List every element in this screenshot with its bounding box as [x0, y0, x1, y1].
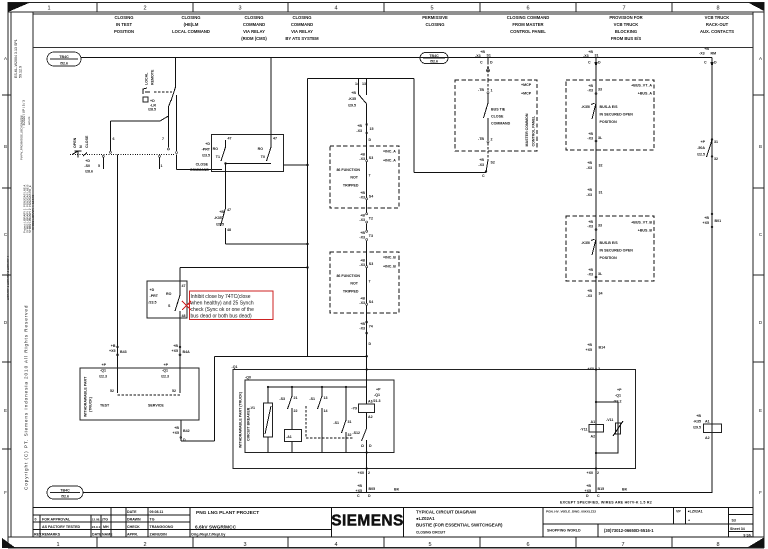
svg-text:S3: S3 — [369, 262, 373, 266]
svg-text:+BUS_B: +BUS_B — [638, 229, 653, 233]
svg-text:6: 6 — [113, 137, 115, 141]
svg-text:+B: +B — [479, 158, 484, 162]
svg-text:arcom: arcom — [27, 116, 31, 125]
svg-text:T1: T1 — [216, 155, 220, 159]
svg-text:BUS-A E/S: BUS-A E/S — [600, 105, 619, 109]
svg-text:+MCP: +MCP — [521, 83, 532, 87]
svg-text:+B: +B — [351, 91, 356, 95]
svg-text:CLOSING CIRCUIT: CLOSING CIRCUIT — [416, 530, 445, 534]
svg-text:AS FACTORY TESTED: AS FACTORY TESTED — [42, 525, 80, 529]
svg-text:(30)73012-06650D-5516-1: (30)73012-06650D-5516-1 — [604, 528, 654, 533]
svg-text:A: A — [4, 56, 7, 61]
svg-text:2: 2 — [368, 471, 370, 475]
svg-text:REMARKS: REMARKS — [42, 533, 61, 537]
svg-text:-TB: -TB — [478, 137, 484, 141]
svg-text:+B: +B — [360, 153, 365, 157]
svg-text:-X3: -X3 — [359, 327, 365, 331]
svg-text:S1: S1 — [487, 54, 491, 58]
svg-text:A1: A1 — [705, 420, 710, 424]
svg-text:-PRT: -PRT — [202, 148, 211, 152]
svg-text:PV-PV_PRO/INSIDE_IBC//GAS/SW: PV-PV_PRO/INSIDE_IBC//GAS/SW — [20, 115, 24, 160]
svg-text:COMMAND: COMMAND — [491, 122, 511, 126]
svg-text:-Q1: -Q1 — [374, 393, 380, 397]
svg-text:59.12.9: 59.12.9 — [19, 66, 23, 78]
svg-text:TB4C: TB4C — [429, 54, 439, 58]
svg-text:+BUS_VT_A: +BUS_VT_A — [631, 84, 652, 88]
svg-text:+B: +B — [588, 220, 593, 224]
svg-text:BY ATS SYSTEM: BY ATS SYSTEM — [285, 36, 319, 41]
svg-text:-K35/: -K35/ — [581, 105, 590, 109]
svg-text:-A1: -A1 — [286, 435, 292, 439]
svg-text:A: A — [759, 56, 762, 61]
svg-text:Ω: Ω — [361, 444, 364, 448]
svg-text:0: 0 — [35, 518, 37, 522]
svg-text:CLOSE: CLOSE — [85, 135, 89, 148]
svg-text:E: E — [4, 408, 7, 413]
svg-text:+B: +B — [360, 214, 365, 218]
svg-text:-50A: -50A — [697, 146, 705, 150]
svg-text:AUX. CONTACTS: AUX. CONTACTS — [700, 29, 734, 34]
svg-text:TRANGGONO: TRANGGONO — [150, 525, 174, 529]
svg-text:14: 14 — [355, 82, 359, 86]
svg-text:+P: +P — [102, 363, 107, 367]
svg-text:D: D — [183, 438, 186, 442]
svg-text:6.6kV SWGR/MCC: 6.6kV SWGR/MCC — [195, 525, 237, 531]
svg-text:C: C — [482, 174, 485, 178]
svg-text:FROM BUS E/S: FROM BUS E/S — [611, 36, 641, 41]
svg-text:S3: S3 — [732, 518, 736, 522]
svg-text:32: 32 — [599, 164, 603, 168]
svg-text:+B: +B — [587, 343, 592, 347]
svg-text:34: 34 — [599, 292, 603, 296]
svg-text:31: 31 — [348, 420, 352, 424]
svg-text:T2: T2 — [369, 217, 373, 221]
svg-text:2: 2 — [143, 6, 146, 12]
svg-text:S2: S2 — [491, 161, 495, 165]
svg-text:VCB TRUCK: VCB TRUCK — [614, 22, 639, 27]
svg-text:+X0: +X0 — [358, 471, 365, 475]
svg-text:22: 22 — [294, 409, 298, 413]
svg-text:when healthy) and 25 Synch: when healthy) and 25 Synch — [191, 300, 254, 306]
svg-text:-X3: -X3 — [586, 294, 592, 298]
svg-text:-K35T: -K35T — [214, 216, 225, 220]
svg-text:+B: +B — [696, 414, 701, 418]
svg-text:/52.6: /52.6 — [61, 495, 69, 499]
svg-text:D: D — [369, 342, 372, 346]
svg-text:=INC_B: =INC_B — [383, 256, 396, 260]
svg-text:/29.5: /29.5 — [348, 104, 356, 108]
svg-text:-Y9: -Y9 — [351, 407, 357, 411]
svg-text:7: 7 — [369, 280, 371, 284]
svg-text:21: 21 — [294, 396, 298, 400]
svg-text:-K35: -K35 — [693, 420, 701, 424]
svg-text:NOT: NOT — [350, 176, 358, 180]
svg-text:PNG LNG PLANT PROJECT: PNG LNG PLANT PROJECT — [196, 510, 259, 516]
svg-text:B05: B05 — [369, 487, 376, 491]
svg-text:+X0: +X0 — [587, 471, 594, 475]
svg-text:S3: S3 — [369, 156, 373, 160]
svg-text:+P: +P — [617, 388, 622, 392]
svg-text:7: 7 — [621, 542, 624, 548]
svg-text:B: B — [759, 144, 762, 149]
svg-text:D: D — [369, 444, 372, 448]
svg-text:C: C — [704, 61, 707, 65]
svg-text:-X3: -X3 — [699, 52, 705, 56]
svg-text:1: 1 — [491, 89, 493, 93]
svg-text:+B: +B — [360, 322, 365, 326]
svg-text:/23.5: /23.5 — [149, 301, 157, 305]
svg-text:-X3: -X3 — [359, 157, 365, 161]
svg-text:-K35: -K35 — [348, 97, 356, 101]
svg-text:/29.5: /29.5 — [693, 426, 701, 430]
svg-text:D: D — [586, 494, 589, 498]
svg-text:/22.5: /22.5 — [697, 153, 705, 157]
svg-text:+B: +B — [588, 84, 593, 88]
svg-text:48: 48 — [182, 314, 186, 318]
svg-text:LOCAL: LOCAL — [145, 72, 149, 85]
svg-text:VIA RELAY: VIA RELAY — [291, 29, 313, 34]
svg-text:TB4C: TB4C — [59, 55, 69, 59]
svg-text:+MCP: +MCP — [521, 92, 532, 96]
svg-text:-S0: -S0 — [84, 164, 90, 168]
svg-text:+B: +B — [588, 132, 593, 136]
svg-text:NAME: NAME — [102, 533, 113, 537]
svg-text:+B: +B — [174, 426, 179, 430]
svg-text:+D: +D — [85, 159, 90, 163]
svg-text:-TB: -TB — [478, 88, 484, 92]
svg-text:N: N — [79, 145, 83, 148]
svg-text:WITHDRAWABLE PART: WITHDRAWABLE PART — [84, 376, 88, 417]
svg-text:COMMAND: COMMAND — [291, 22, 313, 27]
svg-text:+X5: +X5 — [703, 221, 710, 225]
svg-text:+P: +P — [164, 363, 169, 367]
svg-text:-X3: -X3 — [587, 225, 593, 229]
svg-text:RO: RO — [258, 147, 264, 151]
svg-text:Orig./Repl.f./Repl.by: Orig./Repl.f./Repl.by — [191, 533, 225, 537]
svg-text:CLOSING: CLOSING — [181, 15, 200, 20]
svg-text:+X5: +X5 — [109, 349, 116, 353]
svg-text:+B: +B — [480, 50, 485, 54]
svg-text:5: 5 — [430, 6, 433, 12]
svg-text:-PRT: -PRT — [150, 294, 159, 298]
svg-text:+X5: +X5 — [356, 489, 363, 493]
svg-text:32: 32 — [714, 157, 718, 161]
svg-text:2: 2 — [143, 542, 146, 548]
svg-text:CHECK: CHECK — [127, 525, 140, 529]
svg-text:86 FUNCTION: 86 FUNCTION — [336, 168, 360, 172]
svg-text:-X3: -X3 — [583, 54, 589, 58]
svg-text:/52.6: /52.6 — [60, 62, 68, 66]
svg-text:PERMISSIVE: PERMISSIVE — [422, 15, 448, 20]
svg-text:-S3: -S3 — [279, 397, 285, 401]
svg-text:VP: VP — [676, 510, 681, 514]
svg-text:C: C — [480, 61, 483, 65]
svg-text:ES-KL-W2004 3.13 SP1: ES-KL-W2004 3.13 SP1 — [14, 39, 18, 78]
svg-text:CLOSING: CLOSING — [292, 15, 311, 20]
svg-text:B14: B14 — [599, 346, 606, 350]
svg-text:A2: A2 — [591, 435, 596, 439]
svg-text:31: 31 — [595, 54, 599, 58]
svg-text:8: 8 — [716, 6, 719, 12]
svg-text:BLOCKING: BLOCKING — [615, 29, 637, 34]
svg-text:4: 4 — [334, 542, 337, 548]
svg-text:BK: BK — [394, 488, 400, 492]
svg-text:RO: RO — [166, 292, 172, 296]
svg-text:T3: T3 — [369, 234, 373, 238]
svg-text:TYPICAL CIRCUIT DIAGRAM: TYPICAL CIRCUIT DIAGRAM — [416, 509, 476, 514]
svg-text:B42: B42 — [183, 429, 190, 433]
svg-text:CLOSING: CLOSING — [114, 15, 133, 20]
svg-text:WITHDRAWABLE PART (TRUCK): WITHDRAWABLE PART (TRUCK) — [239, 391, 243, 448]
svg-text:-X3: -X3 — [587, 137, 593, 141]
svg-text:7: 7 — [162, 137, 164, 141]
svg-text:3: 3 — [238, 6, 241, 12]
svg-text:NOT: NOT — [350, 282, 358, 286]
svg-text:D: D — [369, 138, 372, 142]
svg-text:DATE: DATE — [92, 533, 102, 537]
svg-text:+B: +B — [588, 50, 593, 54]
svg-text:+B: +B — [588, 268, 593, 272]
svg-text:+B: +B — [586, 484, 591, 488]
svg-text:MH: MH — [103, 525, 109, 529]
svg-text:31: 31 — [599, 191, 603, 195]
svg-text:+D: +D — [150, 99, 155, 103]
svg-text:-K35/: -K35/ — [581, 241, 590, 245]
svg-text:+B: +B — [173, 344, 178, 348]
svg-text:-Q1: -Q1 — [162, 369, 168, 373]
svg-text:+B: +B — [357, 124, 362, 128]
svg-text:CLOSING COMMAND: CLOSING COMMAND — [507, 15, 550, 20]
svg-text:F: F — [759, 490, 762, 495]
svg-text:POSITION: POSITION — [114, 29, 134, 34]
svg-text:(TRUCK): (TRUCK) — [89, 396, 93, 412]
svg-text:47: 47 — [227, 208, 231, 212]
svg-text:SIEMENS: SIEMENS — [331, 513, 404, 530]
svg-text:+B: +B — [111, 344, 116, 348]
svg-text:2: 2 — [597, 471, 599, 475]
svg-text:47: 47 — [273, 137, 277, 141]
svg-text:/22.3: /22.3 — [99, 375, 107, 379]
svg-text:CIRCUIT BREAKER: CIRCUIT BREAKER — [247, 407, 251, 441]
svg-text:LIBRARY 1 LIBRARY 2 LIBRARY: LIBRARY 1 LIBRARY 2 LIBRARY 4 — [6, 255, 10, 300]
svg-text:VIA RELAY: VIA RELAY — [243, 29, 265, 34]
svg-text:-S1: -S1 — [333, 421, 339, 425]
svg-text:-V1: -V1 — [249, 406, 255, 410]
svg-text:IN TEST: IN TEST — [116, 22, 132, 27]
svg-text:15: 15 — [370, 127, 374, 131]
svg-text:-V11: -V11 — [606, 418, 613, 422]
svg-text:+B: +B — [587, 289, 592, 293]
svg-text:+B: +B — [704, 216, 709, 220]
svg-text:-X3: -X3 — [475, 54, 481, 58]
svg-text:+B: +B — [360, 231, 365, 235]
svg-text:=INC_A: =INC_A — [383, 150, 396, 154]
svg-text:BUS TIE: BUS TIE — [491, 108, 506, 112]
svg-text:COMMAND: COMMAND — [243, 22, 265, 27]
svg-text:S4: S4 — [369, 300, 373, 304]
svg-text:+B: +B — [587, 188, 592, 192]
svg-text:/22.2: /22.2 — [614, 400, 622, 404]
svg-text:BK: BK — [622, 488, 628, 492]
svg-text:D: D — [490, 61, 493, 65]
svg-text:APPR.: APPR. — [127, 533, 138, 537]
svg-text:FROM MASTER: FROM MASTER — [512, 22, 543, 27]
svg-text:+X5: +X5 — [173, 431, 180, 435]
svg-text:31: 31 — [714, 140, 718, 144]
svg-text:-X3: -X3 — [356, 129, 362, 133]
svg-text:COMMAND: COMMAND — [190, 168, 210, 172]
svg-text:LOCAL COMMAND: LOCAL COMMAND — [172, 29, 210, 34]
svg-text:Copyright (C) PT. Siemens Ind: Copyright (C) PT. Siemens Indonesia 2010… — [24, 305, 29, 490]
svg-text:-X3: -X3 — [359, 195, 365, 199]
svg-text:D: D — [368, 494, 371, 498]
svg-text:+B: +B — [587, 161, 592, 165]
svg-text:+B: +B — [219, 210, 224, 214]
svg-text:TEST: TEST — [100, 404, 110, 408]
svg-text:-X3: -X3 — [587, 273, 593, 277]
svg-text:47: 47 — [182, 284, 186, 288]
svg-text:TRIPPED: TRIPPED — [343, 183, 359, 187]
svg-text:14: 14 — [324, 409, 328, 413]
svg-text:-X3: -X3 — [478, 163, 484, 167]
svg-text:E: E — [759, 408, 762, 413]
svg-text:CLOSE: CLOSE — [196, 163, 209, 167]
svg-text:IN SECURED OPEN: IN SECURED OPEN — [600, 113, 634, 117]
svg-text:TG: TG — [150, 518, 155, 522]
svg-text:FOR APPROVAL: FOR APPROVAL — [42, 518, 71, 522]
svg-text:CONTROL PANEL: CONTROL PANEL — [510, 29, 546, 34]
svg-text:+: + — [688, 518, 690, 522]
svg-text:33: 33 — [598, 224, 602, 228]
svg-text:-Y11: -Y11 — [580, 428, 587, 432]
svg-text:DATE: DATE — [127, 510, 137, 514]
svg-text:09.08.11: 09.08.11 — [150, 510, 164, 514]
svg-text:REMOTE: REMOTE — [151, 69, 155, 85]
svg-text:BUSTIE (FOR ESSENTIAL SWITCHGE: BUSTIE (FOR ESSENTIAL SWITCHGEAR) — [416, 523, 503, 528]
svg-text:1: 1 — [56, 542, 59, 548]
svg-text:8: 8 — [716, 542, 719, 548]
svg-text:13: 13 — [324, 396, 328, 400]
svg-text:86 FUNCTION: 86 FUNCTION — [336, 274, 360, 278]
svg-text:ZAINUDIN: ZAINUDIN — [150, 533, 168, 537]
svg-text:BUS-B E/S: BUS-B E/S — [600, 241, 619, 245]
svg-text:D: D — [598, 61, 601, 65]
svg-text:CLOSING: CLOSING — [244, 15, 263, 20]
svg-text:33: 33 — [598, 88, 602, 92]
svg-text:-S1: -S1 — [309, 397, 315, 401]
svg-text:●LZ02A1: ●LZ02A1 — [688, 510, 703, 514]
svg-text:A2: A2 — [705, 436, 710, 440]
svg-text:●LZ02A1: ●LZ02A1 — [416, 516, 435, 521]
svg-text:A1: A1 — [591, 420, 596, 424]
svg-text:+D: +D — [150, 288, 155, 292]
svg-text:SERVICE: SERVICE — [148, 404, 164, 408]
svg-text:+B: +B — [704, 47, 709, 51]
svg-text:5: 5 — [428, 542, 431, 548]
svg-text:-X3: -X3 — [586, 193, 592, 197]
svg-text:+B: +B — [360, 259, 365, 263]
svg-text:+P: +P — [376, 388, 381, 392]
svg-text:(RIOM (CMS): (RIOM (CMS) — [241, 36, 267, 41]
svg-text:SHOPPING WORLD: SHOPPING WORLD — [547, 529, 581, 533]
svg-text:+X5: +X5 — [585, 489, 592, 493]
svg-text:CLOSE: CLOSE — [491, 115, 504, 119]
svg-text:RM: RM — [711, 52, 717, 56]
svg-text:TG: TG — [103, 518, 108, 522]
svg-text:+BUS_A: +BUS_A — [638, 92, 653, 96]
svg-text:C: C — [588, 61, 591, 65]
svg-text:POSITION: POSITION — [600, 120, 618, 124]
svg-text:IN SECURED OPEN: IN SECURED OPEN — [600, 249, 634, 253]
svg-text:C: C — [357, 494, 360, 498]
svg-text:-Q1: -Q1 — [232, 365, 238, 369]
svg-text:9 Sh.: 9 Sh. — [743, 533, 752, 537]
svg-text:-Q1: -Q1 — [615, 394, 621, 398]
svg-text:DRAWN: DRAWN — [127, 518, 141, 522]
svg-text:-X3: -X3 — [586, 166, 592, 170]
svg-text:+P: +P — [701, 140, 706, 144]
svg-text:-X3: -X3 — [359, 301, 365, 305]
svg-text:VCB TRUCK: VCB TRUCK — [705, 15, 730, 20]
svg-text:+D: +D — [205, 142, 210, 146]
svg-text:TRIPPED: TRIPPED — [343, 289, 359, 293]
svg-text:7: 7 — [369, 174, 371, 178]
svg-text:(HE)LM: (HE)LM — [184, 22, 199, 27]
svg-text:/23.5: /23.5 — [202, 154, 210, 158]
svg-text:48: 48 — [227, 228, 231, 232]
svg-text:1: 1 — [161, 164, 163, 168]
svg-text:7: 7 — [622, 6, 625, 12]
svg-text:Inhibit close by 74TC(close: Inhibit close by 74TC(close — [191, 294, 251, 300]
svg-text:EXCEPT SPECIFIED, WIRES ARE H0: EXCEPT SPECIFIED, WIRES ARE H07V-K 1.5 R… — [560, 501, 652, 505]
svg-text:+B: +B — [357, 484, 362, 488]
svg-text:POSITION: POSITION — [600, 256, 618, 260]
svg-text:D: D — [714, 61, 717, 65]
svg-text:/28.5: /28.5 — [148, 108, 156, 112]
svg-text:52: 52 — [172, 389, 176, 393]
svg-text:B15: B15 — [598, 487, 605, 491]
svg-text:-X3: -X3 — [359, 236, 365, 240]
svg-text:F: F — [4, 490, 7, 495]
svg-text:/28.6: /28.6 — [85, 170, 93, 174]
svg-text:TB4C: TB4C — [60, 488, 70, 492]
svg-text:47: 47 — [228, 137, 232, 141]
svg-text:RACK-OUT: RACK-OUT — [706, 22, 729, 27]
svg-text:B43: B43 — [120, 350, 127, 354]
svg-text:/29.5: /29.5 — [216, 223, 224, 227]
svg-text:REV.: REV. — [34, 533, 42, 537]
svg-text:+BUS_VT_B: +BUS_VT_B — [631, 221, 652, 225]
svg-text:23.9.11: 23.9.11 — [92, 525, 102, 529]
svg-text:6: 6 — [526, 6, 529, 12]
svg-text:SYMB2 LIBRARY 4 12.5.50: SYMB2 LIBRARY 4 12.5.50 — [31, 194, 35, 230]
svg-text:B4A: B4A — [183, 350, 191, 354]
svg-text:/52.6: /52.6 — [430, 59, 438, 63]
svg-text:+INC_B: +INC_B — [383, 265, 396, 269]
svg-text:CLOSING: CLOSING — [425, 22, 444, 27]
svg-text:bus dead or both bus dead): bus dead or both bus dead) — [191, 313, 252, 319]
svg-text:T0: T0 — [261, 155, 265, 159]
svg-text:5: 5 — [98, 164, 100, 168]
svg-text:2: 2 — [491, 138, 493, 142]
svg-text:-X3: -X3 — [587, 89, 593, 93]
svg-text:/21.3: /21.3 — [373, 399, 381, 403]
svg-text:S4: S4 — [369, 195, 373, 199]
svg-text:A2: A2 — [368, 415, 373, 419]
svg-text:32: 32 — [348, 433, 352, 437]
svg-text:52: 52 — [110, 389, 114, 393]
svg-text:-X3: -X3 — [359, 218, 365, 222]
